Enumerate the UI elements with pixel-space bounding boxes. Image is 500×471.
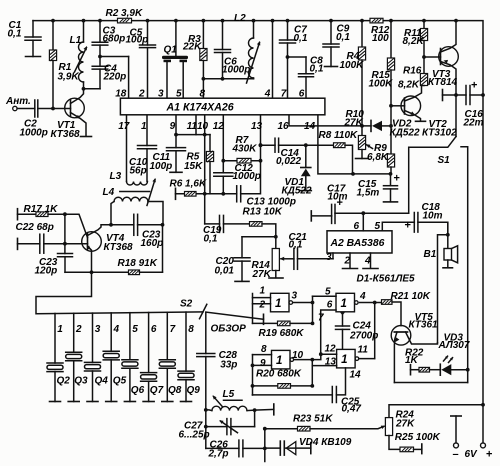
svg-text:5: 5 (325, 287, 331, 298)
svg-text:L1: L1 (70, 35, 82, 46)
svg-text:Ант.: Ант. (5, 96, 31, 107)
svg-text:3: 3 (95, 324, 101, 335)
svg-text:8,2K: 8,2K (403, 36, 425, 47)
svg-text:430K: 430K (232, 144, 258, 155)
svg-text:6V: 6V (465, 449, 479, 460)
svg-text:6,8K: 6,8K (367, 152, 389, 163)
svg-text:10m: 10m (423, 210, 443, 221)
svg-text:4: 4 (113, 324, 120, 335)
svg-text:2: 2 (138, 88, 145, 99)
svg-text:14: 14 (350, 370, 362, 381)
svg-text:12: 12 (213, 121, 225, 132)
svg-text:9: 9 (170, 121, 176, 132)
svg-text:2: 2 (259, 300, 266, 311)
svg-text:27K: 27K (344, 117, 364, 128)
svg-text:+: + (471, 80, 477, 92)
svg-text:6: 6 (354, 221, 360, 232)
svg-text:1: 1 (276, 355, 282, 367)
svg-text:5: 5 (375, 221, 381, 232)
svg-text:680p: 680p (103, 34, 126, 45)
svg-text:A1 К174ХА26: A1 К174ХА26 (166, 102, 234, 114)
svg-text:4: 4 (359, 291, 366, 302)
svg-text:C22 68p: C22 68p (16, 222, 54, 233)
svg-text:КД522: КД522 (282, 186, 312, 197)
svg-text:L3: L3 (110, 171, 122, 182)
svg-text:Q6: Q6 (131, 385, 145, 396)
svg-text:6...25p: 6...25p (179, 429, 210, 440)
svg-text:КТ368: КТ368 (104, 242, 134, 253)
svg-text:R23 51K: R23 51K (293, 414, 333, 425)
svg-text:3: 3 (326, 252, 332, 263)
svg-text:11: 11 (358, 345, 369, 356)
svg-text:Q9: Q9 (187, 385, 201, 396)
svg-text:100: 100 (372, 33, 389, 44)
svg-text:A2 ВА5386: A2 ВА5386 (330, 238, 385, 249)
svg-text:1K: 1K (405, 355, 419, 366)
svg-text:R19 680K: R19 680K (259, 328, 305, 339)
svg-text:0,1: 0,1 (336, 32, 350, 43)
svg-text:100p: 100p (150, 161, 173, 172)
svg-text:2700p: 2700p (349, 331, 378, 342)
svg-text:R6 1,6K: R6 1,6K (170, 179, 207, 190)
svg-text:0,022: 0,022 (276, 156, 301, 167)
svg-text:1: 1 (275, 298, 281, 310)
svg-text:6: 6 (299, 88, 305, 99)
svg-text:Q2: Q2 (57, 375, 71, 386)
svg-text:Q4: Q4 (95, 375, 109, 386)
svg-text:L4: L4 (103, 187, 115, 198)
svg-text:10m: 10m (328, 192, 348, 203)
svg-text:33p: 33p (220, 360, 237, 371)
svg-text:1,5m: 1,5m (357, 187, 380, 198)
svg-text:11: 11 (187, 121, 198, 132)
svg-text:7: 7 (170, 324, 176, 335)
svg-text:Q7: Q7 (150, 385, 164, 396)
svg-text:КТ814: КТ814 (428, 77, 458, 88)
svg-text:R2 3,9K: R2 3,9K (106, 8, 143, 19)
svg-text:56p: 56p (130, 165, 147, 176)
svg-text:+: + (394, 173, 400, 185)
svg-text:Q3: Q3 (74, 375, 88, 386)
svg-text:13: 13 (325, 357, 337, 368)
svg-text:15K: 15K (184, 161, 203, 172)
svg-text:R25 100K: R25 100K (395, 432, 441, 443)
svg-text:8: 8 (261, 344, 267, 355)
svg-text:6: 6 (327, 300, 333, 311)
svg-text:0,1: 0,1 (294, 33, 308, 44)
svg-text:КД522: КД522 (390, 128, 420, 139)
svg-text:КТ368: КТ368 (51, 129, 81, 140)
svg-text:L5: L5 (223, 389, 235, 400)
svg-text:2: 2 (75, 324, 82, 335)
svg-text:160p: 160p (141, 238, 164, 249)
svg-text:0,01: 0,01 (215, 266, 235, 277)
svg-text:1: 1 (341, 354, 347, 366)
svg-text:13: 13 (251, 121, 263, 132)
svg-text:5: 5 (176, 88, 182, 99)
svg-text:1000p: 1000p (222, 65, 250, 76)
svg-text:АЛ307: АЛ307 (438, 340, 470, 351)
svg-text:0,47: 0,47 (342, 403, 362, 414)
svg-text:+: + (486, 449, 492, 461)
svg-text:120p: 120p (35, 265, 58, 276)
svg-text:18: 18 (115, 88, 127, 99)
svg-text:R17 1K: R17 1K (24, 204, 59, 215)
svg-text:4: 4 (364, 256, 371, 267)
svg-text:Q8: Q8 (168, 385, 182, 396)
svg-text:100K: 100K (369, 79, 394, 90)
svg-text:12: 12 (325, 344, 337, 355)
svg-text:0,1: 0,1 (204, 234, 218, 245)
svg-text:17: 17 (118, 121, 130, 132)
svg-text:0,1: 0,1 (310, 64, 324, 75)
svg-text:VD4 КВ109: VD4 КВ109 (299, 437, 352, 448)
svg-text:R13 10K: R13 10K (243, 207, 283, 218)
svg-text:КТ3102: КТ3102 (422, 128, 457, 139)
svg-text:27K: 27K (395, 419, 415, 430)
svg-text:S2: S2 (180, 299, 193, 310)
svg-text:220p: 220p (103, 72, 127, 83)
svg-text:8: 8 (200, 88, 206, 99)
svg-text:1000p: 1000p (20, 128, 48, 139)
svg-text:3,9K: 3,9K (58, 72, 80, 83)
svg-text:14: 14 (304, 121, 316, 132)
svg-text:R16: R16 (403, 66, 422, 77)
svg-text:10: 10 (292, 350, 304, 361)
svg-text:5: 5 (132, 324, 138, 335)
svg-text:Q5: Q5 (113, 375, 127, 386)
svg-text:L2: L2 (234, 13, 246, 24)
svg-text:16: 16 (278, 121, 290, 132)
svg-text:8,2K: 8,2K (398, 80, 420, 91)
svg-text:1: 1 (141, 121, 147, 132)
svg-text:R20 680K: R20 680K (256, 368, 302, 379)
svg-text:R8 110K: R8 110K (319, 130, 359, 141)
svg-text:ОБЗОР: ОБЗОР (211, 324, 247, 335)
svg-text:R18 91K: R18 91K (118, 258, 158, 269)
svg-text:+: + (405, 219, 411, 231)
svg-text:1: 1 (260, 286, 266, 297)
svg-text:S1: S1 (438, 155, 451, 166)
svg-text:22m: 22m (463, 118, 484, 129)
svg-text:2: 2 (344, 256, 351, 267)
svg-text:27K: 27K (252, 269, 272, 280)
svg-text:7: 7 (281, 88, 287, 99)
svg-text:22K: 22K (182, 42, 202, 53)
svg-text:D1-К561ЛЕ5: D1-К561ЛЕ5 (357, 274, 415, 285)
svg-text:B1: B1 (424, 249, 437, 260)
svg-text:8: 8 (188, 324, 194, 335)
svg-text:R21 10K: R21 10K (391, 291, 431, 302)
svg-text:0,1: 0,1 (289, 240, 303, 251)
svg-text:100K: 100K (340, 60, 365, 71)
svg-text:КТ361: КТ361 (409, 319, 439, 330)
svg-text:10: 10 (197, 121, 209, 132)
svg-text:1: 1 (57, 324, 63, 335)
svg-text:4: 4 (264, 88, 271, 99)
svg-text:7: 7 (318, 313, 324, 324)
svg-text:100p: 100p (126, 35, 149, 46)
svg-text:Q1: Q1 (164, 45, 178, 56)
svg-text:3: 3 (158, 88, 164, 99)
svg-text:2,7p: 2,7p (208, 448, 229, 459)
svg-text:0,1: 0,1 (8, 29, 22, 40)
svg-text:1: 1 (341, 298, 347, 310)
svg-text:–: – (453, 449, 459, 461)
svg-text:1000p: 1000p (233, 171, 261, 182)
svg-text:3: 3 (292, 291, 298, 302)
svg-text:6: 6 (151, 324, 157, 335)
